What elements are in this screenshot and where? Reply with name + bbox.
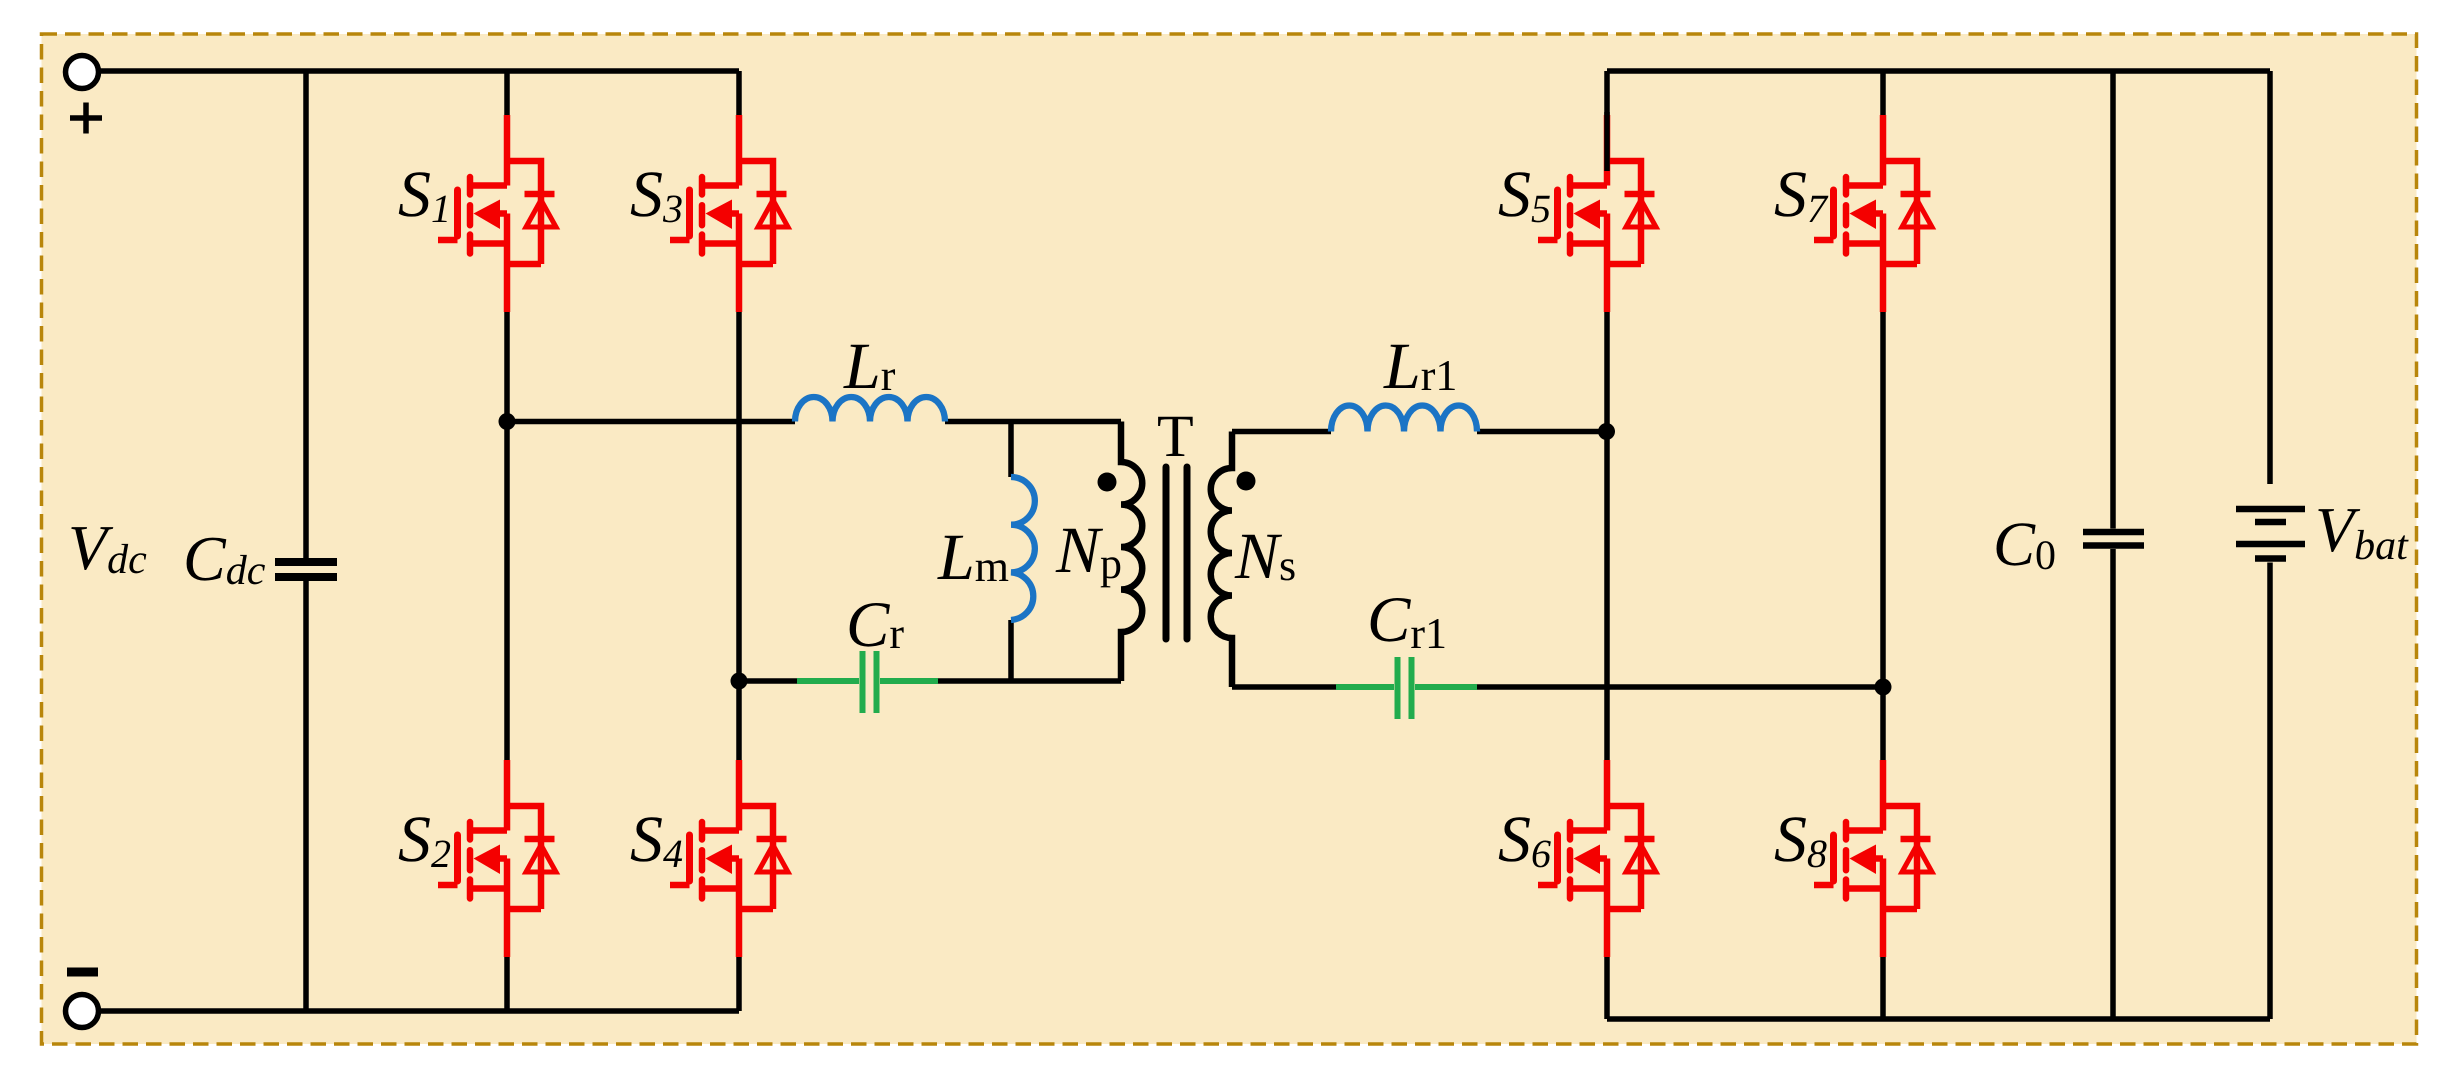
wire Vbat leg: [2267, 71, 2273, 1019]
wire Cr1 to node D: [1477, 684, 1883, 690]
capacitor Cr1 (green, resonant): [1336, 657, 1477, 719]
wire Cr to transformer bottom: [938, 678, 1121, 684]
capacitor Cdc plates: [275, 562, 337, 577]
node A junction dot: [499, 413, 516, 430]
wire top rail left: [99, 68, 740, 74]
transistor S1: [438, 115, 556, 312]
transistor S2: [438, 760, 556, 957]
battery Vbat plates: [2236, 509, 2305, 559]
transistor S8: [1814, 760, 1932, 957]
wire Cdc leg: [303, 71, 309, 1011]
wire leg A (S1/S2): [504, 71, 510, 1011]
wire Lr1 to node C: [1477, 429, 1607, 435]
positive terminal: [66, 56, 99, 89]
plus sign: [70, 103, 102, 134]
transformer primary winding Np: [1121, 422, 1142, 682]
transformer secondary winding Ns: [1211, 432, 1232, 688]
transistor S3: [670, 115, 788, 312]
wire node A to Lr: [507, 419, 795, 425]
capacitor Cr (green, resonant): [797, 651, 938, 713]
wire leg B (S3/S4): [736, 71, 742, 1011]
wire C0 leg: [2110, 71, 2116, 1019]
wire Lm bottom lead: [1008, 620, 1014, 681]
wire bottom rail left: [99, 1008, 740, 1014]
transistor S7: [1814, 115, 1932, 312]
transistor S6: [1538, 760, 1656, 957]
capacitor C0 plates: [2083, 532, 2144, 546]
transformer primary polarity dot: [1098, 473, 1117, 492]
wire Lm top lead: [1008, 422, 1014, 478]
transformer core bars: [1166, 467, 1187, 639]
transformer secondary polarity dot: [1237, 472, 1256, 491]
minus sign: [67, 968, 98, 977]
wire top rail right: [1607, 68, 2270, 74]
inductor Lr1 (blue coil): [1331, 406, 1477, 432]
node D junction dot: [1875, 679, 1892, 696]
negative terminal: [66, 995, 99, 1028]
transistor S5: [1538, 115, 1656, 312]
wire Ns bottom to Cr1: [1232, 684, 1336, 690]
wire S5 drain black overlap: [1604, 112, 1610, 171]
wire Ns top to Lr1: [1232, 429, 1331, 435]
svg-text:T: T: [1157, 403, 1194, 469]
inductor Lm (blue magnetizing coil): [1011, 477, 1035, 620]
inductor Lr (blue coil): [795, 397, 945, 422]
wire bottom rail right: [1607, 1016, 2270, 1022]
wire leg D (S7/S8): [1880, 71, 1886, 1019]
wire Lr to transformer: [945, 419, 1121, 425]
node C junction dot: [1598, 423, 1615, 440]
wire leg C (S5/S6): [1604, 71, 1610, 1019]
wire node B to Cr: [739, 678, 797, 684]
transistor S4: [670, 760, 788, 957]
node B junction dot: [731, 673, 748, 690]
